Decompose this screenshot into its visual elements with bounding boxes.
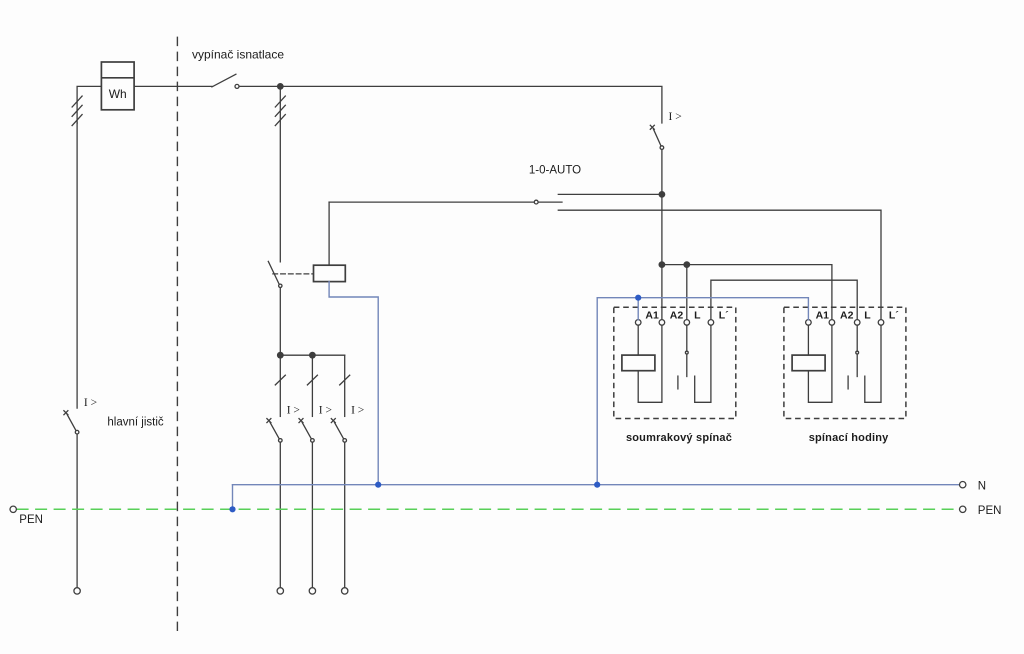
slash phase 1 <box>275 375 285 385</box>
svg-text:vypínač isnatlace: vypínač isnatlace <box>192 48 284 62</box>
terminal A1 box1 <box>635 320 641 326</box>
svg-text:Wh: Wh <box>109 87 127 101</box>
wire node to right corner <box>280 86 662 123</box>
node blue A1 box1 <box>635 295 641 301</box>
node A2 feed junction <box>659 261 666 268</box>
wire selector pole <box>329 201 534 203</box>
wire coil U loop box1 <box>638 325 662 402</box>
node blue coil branch <box>375 482 381 488</box>
terminal Lp box2 <box>878 320 884 326</box>
wire N bus <box>233 484 960 486</box>
terminal circle phase L <box>74 588 80 594</box>
wire selector throw 1 <box>558 193 662 195</box>
terminal Lp box1 <box>708 320 714 326</box>
breaker main moving contact <box>75 430 79 434</box>
energy meter Wh <box>101 62 134 110</box>
terminal A1 box2 <box>806 320 812 326</box>
fixed stub box2 <box>847 376 849 389</box>
svg-text:A2: A2 <box>670 309 684 321</box>
contact blade box1 <box>686 354 688 376</box>
wire phase 3 drop <box>344 355 346 416</box>
terminal A2 box2 <box>829 320 835 326</box>
svg-text:PEN: PEN <box>978 505 1002 517</box>
contactor contact blade <box>268 261 279 284</box>
node L feed junction <box>683 261 690 268</box>
breaker F3 blade <box>335 423 344 439</box>
svg-text:1-0-AUTO: 1-0-AUTO <box>529 165 581 177</box>
breaker F2 X tip <box>299 419 303 423</box>
wire F1 to terminal <box>279 442 281 587</box>
breaker F1 contact <box>279 439 283 443</box>
wire contact to split bar <box>279 288 281 356</box>
node blue N-PEN junction <box>229 506 235 512</box>
terminal circle 3 <box>342 588 348 594</box>
svg-text:soumrakový spínač: soumrakový spínač <box>626 432 732 444</box>
svg-text:I >: I > <box>669 111 682 123</box>
svg-text:L: L <box>694 309 701 321</box>
wire L to pivot box1 <box>686 325 688 351</box>
breaker main blade <box>67 415 76 431</box>
wire phase 1 drop <box>279 355 281 416</box>
node split bar 1 <box>277 352 284 359</box>
wire switch to node <box>239 85 280 87</box>
terminal circle 1 <box>277 588 283 594</box>
wire blue A1 branch box1 <box>637 298 639 320</box>
wire main vertical to A2 <box>661 194 663 319</box>
fixed stub box1 <box>677 376 679 389</box>
breaker F2 contact <box>311 439 315 443</box>
wire split bar <box>280 354 344 356</box>
svg-text:A2: A2 <box>840 309 854 321</box>
mechanical link dashed <box>273 273 314 275</box>
node top bus junction <box>277 83 284 90</box>
terminal circle 2 <box>309 588 315 594</box>
wire Lp U loop box2 <box>865 325 881 402</box>
wire contactor riser <box>279 86 281 262</box>
wire coil U loop box2 <box>808 325 832 402</box>
terminal circle N <box>960 482 966 488</box>
switch vypinac blade <box>212 74 236 87</box>
svg-text:I >: I > <box>84 397 97 409</box>
svg-text:L´: L´ <box>889 309 899 321</box>
wire top bus meter to switch <box>134 85 212 87</box>
wire L riser box1 <box>686 265 688 320</box>
boundary dashed line <box>176 37 178 631</box>
svg-text:A1: A1 <box>645 309 659 321</box>
wire L to pivot box2 <box>856 325 858 351</box>
breaker F3 contact <box>343 439 347 443</box>
wire Lp U loop box1 <box>695 325 711 402</box>
breaker main X tip <box>64 411 68 415</box>
terminal circle PEN right <box>960 506 966 512</box>
phase hatch marks on left riser <box>72 96 82 126</box>
svg-text:A1: A1 <box>816 309 830 321</box>
node selector junction <box>659 191 666 198</box>
wire A1 to coil box1 <box>637 325 639 355</box>
wire top bus left segment <box>77 86 101 123</box>
pivot circle box2 <box>856 351 859 354</box>
wire coil top riser <box>328 202 330 265</box>
phase hatch marks on contactor riser <box>275 96 285 126</box>
wire left riser <box>76 123 78 408</box>
coil rect box2 <box>792 355 825 371</box>
svg-text:N: N <box>978 481 986 493</box>
wire selector throw auto <box>558 210 881 320</box>
svg-text:PEN: PEN <box>19 514 43 526</box>
svg-text:spínací hodiny: spínací hodiny <box>809 432 889 444</box>
node split bar 2 <box>309 352 316 359</box>
wire blue N riser relays <box>597 298 808 485</box>
breaker F1 blade <box>270 423 279 439</box>
wire F2 to terminal <box>311 442 313 587</box>
wire breaker to terminal <box>76 434 78 587</box>
coil rect box1 <box>622 355 655 371</box>
breaker F2 blade <box>302 423 311 439</box>
selector blade <box>538 201 562 203</box>
breaker QF2 blade <box>654 129 662 146</box>
switch vypinac fixed contact <box>235 84 239 88</box>
breaker F3 X tip <box>331 419 335 423</box>
terminal L box1 <box>684 320 690 326</box>
slash phase 2 <box>307 375 317 385</box>
wire A1 to coil box2 <box>807 325 809 355</box>
slash phase 3 <box>340 375 350 385</box>
svg-text:L´: L´ <box>719 309 729 321</box>
svg-text:hlavní jistič: hlavní jistič <box>107 417 163 429</box>
wire N to PEN link <box>232 485 234 510</box>
svg-text:I >: I > <box>351 405 364 417</box>
contactor coil K1 <box>314 265 346 281</box>
terminal A2 box1 <box>659 320 665 326</box>
relay box 2 dashed spinaci hodiny <box>784 307 906 418</box>
relay box 1 dashed soumrakovy spinac <box>614 307 736 418</box>
PEN bus green dashed <box>17 508 960 510</box>
contactor moving contact <box>279 284 282 287</box>
terminal circle PEN left <box>10 506 16 512</box>
wire horizontal feed to A2 of box2 <box>662 265 832 320</box>
svg-text:I >: I > <box>319 405 332 417</box>
wire breaker QF2 down <box>661 150 663 195</box>
terminal L box2 <box>854 320 860 326</box>
pivot circle box1 <box>685 351 688 354</box>
breaker QF2 X tip <box>650 125 654 129</box>
wire blue coil to N <box>329 282 378 485</box>
node blue relay branch <box>594 482 600 488</box>
svg-text:I >: I > <box>287 405 300 417</box>
wire F3 to terminal <box>344 442 346 587</box>
svg-text:L: L <box>864 309 871 321</box>
wire phase 2 drop <box>311 355 313 416</box>
breaker QF2 moving contact <box>660 146 664 150</box>
selector pole contact <box>534 200 538 204</box>
wire L1 to L of box2 <box>711 280 857 320</box>
breaker F1 X tip <box>267 419 271 423</box>
contact blade box2 <box>856 354 858 376</box>
